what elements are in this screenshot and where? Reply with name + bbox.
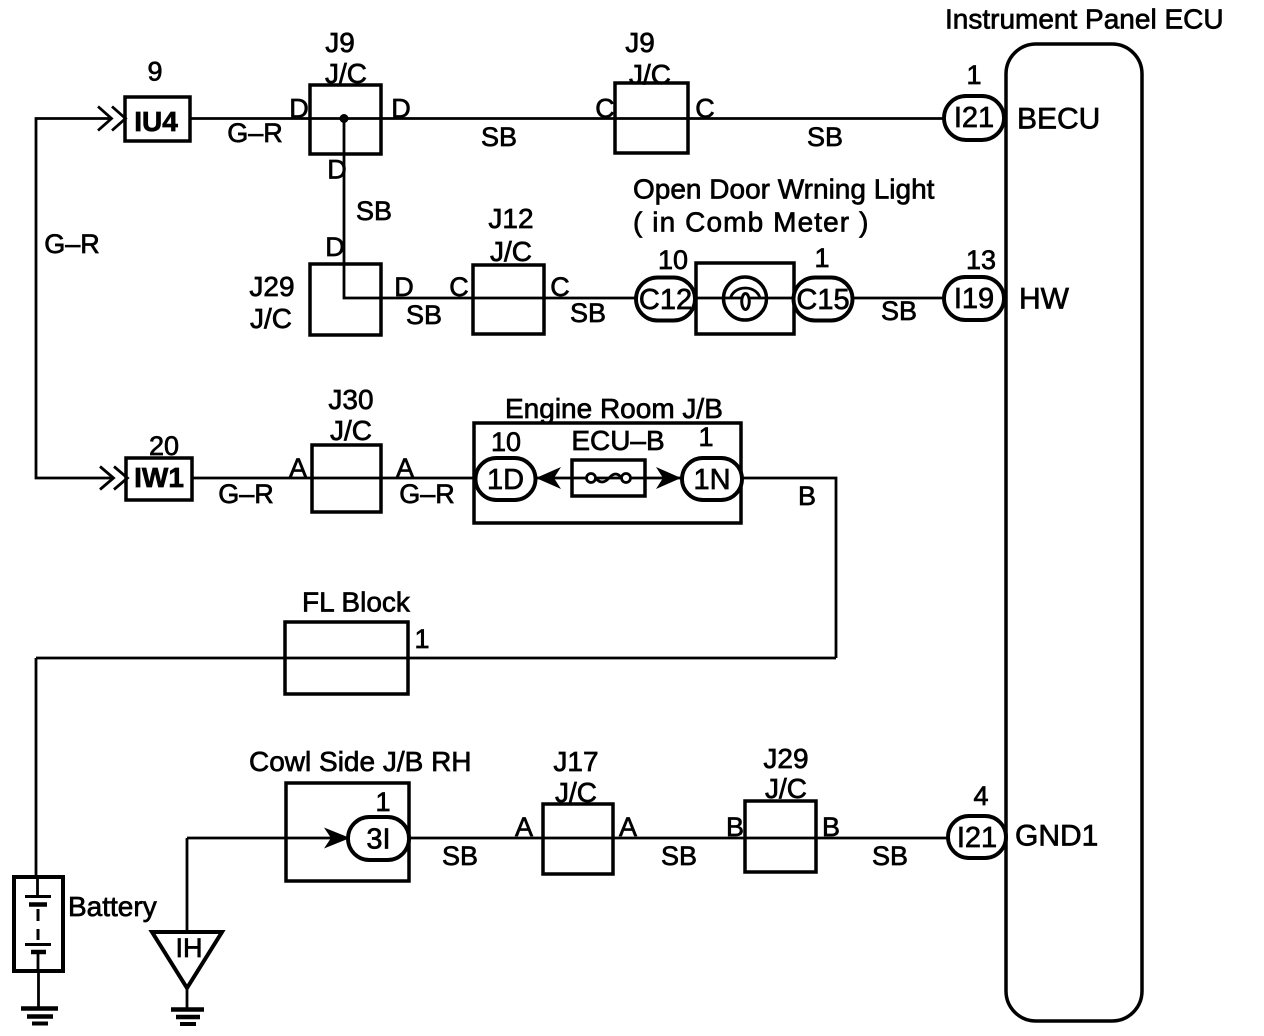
svg-text:A: A: [619, 812, 637, 842]
arrow right into 3I: [324, 828, 350, 849]
connector oval 1N: [682, 458, 742, 500]
svg-text:J30: J30: [328, 384, 373, 415]
svg-text:C: C: [550, 272, 570, 302]
svg-text:B: B: [798, 481, 816, 511]
FL Block box: [285, 622, 408, 694]
connector IU4: [125, 97, 190, 141]
svg-text:3I: 3I: [366, 824, 390, 856]
connector oval 3I: [348, 817, 409, 860]
battery box: [14, 877, 63, 971]
svg-text:J/C: J/C: [490, 236, 532, 267]
junction J17 box: [543, 804, 613, 874]
junction J9 box 1: [310, 85, 381, 154]
battery bottom lead: [37, 952, 40, 971]
battery cell2 short plate: [31, 950, 46, 955]
wire: SB vertical from J9 junction down into J29 then right: [344, 119, 382, 299]
svg-text:J/C: J/C: [325, 58, 367, 89]
svg-text:Battery: Battery: [68, 891, 157, 922]
svg-text:13: 13: [966, 245, 996, 275]
svg-text:G–R: G–R: [218, 479, 274, 509]
svg-text:J/C: J/C: [555, 777, 597, 808]
fuse symbol wave: [596, 474, 622, 482]
wire: row2 from J29 to I19: [381, 297, 946, 300]
svg-text:1: 1: [375, 787, 390, 817]
arrow left: [536, 467, 561, 489]
wire: branch down to IH: [186, 838, 189, 932]
svg-text:SB: SB: [872, 841, 908, 871]
svg-text:BECU: BECU: [1017, 103, 1100, 136]
svg-text:J9: J9: [625, 27, 655, 58]
svg-text:G–R: G–R: [44, 229, 100, 259]
svg-text:9: 9: [147, 57, 162, 87]
battery cell2 long plate: [25, 943, 51, 946]
svg-text:Engine Room J/B: Engine Room J/B: [505, 393, 723, 424]
wire: row4 FL block line: [36, 657, 836, 660]
connector oval 1D: [476, 458, 536, 500]
svg-text:C: C: [595, 94, 615, 124]
svg-text:1: 1: [814, 243, 829, 273]
svg-text:J/C: J/C: [629, 59, 671, 90]
junction J29 box row5: [745, 801, 816, 872]
svg-text:4: 4: [973, 781, 988, 811]
svg-text:1: 1: [698, 422, 713, 452]
svg-text:SB: SB: [661, 841, 697, 871]
IH ground bars: [171, 1010, 204, 1025]
svg-text:SB: SB: [807, 122, 843, 152]
fuse ECU-B box: [572, 460, 645, 496]
svg-text:1: 1: [966, 60, 981, 90]
connector oval I21 GND1: [948, 816, 1006, 858]
battery ground stem: [37, 971, 40, 1008]
arrow right: [656, 467, 681, 489]
connector oval I19 HW: [944, 277, 1004, 320]
connector oval C15: [794, 278, 853, 321]
svg-text:D: D: [325, 232, 345, 262]
wire: left G-R vertical from row1 to row3: [36, 119, 114, 479]
svg-text:B: B: [822, 812, 840, 842]
svg-text:A: A: [515, 812, 533, 842]
junction J9 box 2: [615, 83, 688, 153]
battery top lead: [36, 877, 39, 896]
svg-text:D: D: [327, 155, 347, 185]
IH ground triangle: [152, 932, 222, 988]
battery cell1 long plate: [25, 895, 51, 898]
svg-text:G–R: G–R: [399, 479, 455, 509]
svg-text:A: A: [289, 453, 307, 483]
connector IW1: [126, 458, 192, 500]
svg-text:D: D: [391, 94, 411, 124]
chevron arrows into IW1: [100, 467, 128, 490]
svg-text:IH: IH: [176, 933, 203, 963]
svg-text:J12: J12: [488, 203, 533, 234]
junction J30 box: [312, 445, 381, 512]
svg-text:J29: J29: [249, 271, 294, 302]
svg-text:I21: I21: [954, 102, 994, 134]
svg-text:J17: J17: [553, 746, 598, 777]
Instrument Panel ECU block: [1006, 44, 1142, 1021]
IH ground stem: [186, 988, 189, 1009]
svg-text:1N: 1N: [693, 464, 730, 496]
fuse symbol right circle: [622, 474, 631, 483]
svg-text:I19: I19: [954, 283, 994, 315]
svg-text:SB: SB: [570, 298, 606, 328]
svg-text:SB: SB: [442, 841, 478, 871]
junction dot: [340, 114, 349, 123]
svg-text:I21: I21: [957, 822, 997, 854]
wire: row3 from IW1 to corner and down to FL row: [192, 478, 836, 658]
Engine Room J/B box: [474, 423, 741, 523]
junction J29 box row2: [310, 264, 381, 335]
svg-text:SB: SB: [406, 300, 442, 330]
lamp circle: [724, 277, 767, 320]
svg-text:FL Block: FL Block: [302, 587, 411, 618]
svg-text:10: 10: [658, 245, 688, 275]
svg-text:GND1: GND1: [1015, 820, 1098, 853]
svg-text:J/C: J/C: [250, 303, 292, 334]
chevron arrows into IU4: [98, 107, 126, 131]
svg-text:Instrument Panel ECU: Instrument Panel ECU: [945, 4, 1224, 35]
connector oval C12: [636, 278, 695, 321]
battery dashed center: [37, 909, 40, 921]
wire: row5 main from IH branch to I21: [187, 837, 948, 840]
lamp box Open Door Warning Light: [696, 263, 794, 334]
svg-text:J/C: J/C: [330, 415, 372, 446]
svg-text:Cowl Side J/B RH: Cowl Side J/B RH: [249, 746, 472, 777]
Cowl Side J/B box: [286, 783, 409, 881]
svg-text:ECU–B: ECU–B: [571, 425, 664, 456]
svg-text:( in Comb Meter ): ( in Comb Meter ): [633, 207, 870, 238]
svg-text:J29: J29: [763, 743, 808, 774]
junction J12 box: [473, 265, 544, 334]
connector oval I21 BECU: [944, 96, 1004, 140]
svg-text:Open Door Wrning Light: Open Door Wrning Light: [633, 174, 935, 205]
lamp filament loop: [742, 294, 750, 310]
svg-text:D: D: [394, 272, 414, 302]
svg-text:1: 1: [414, 624, 429, 654]
svg-text:SB: SB: [881, 296, 917, 326]
battery ground bars: [21, 1009, 58, 1024]
svg-text:10: 10: [491, 427, 521, 457]
svg-text:IW1: IW1: [134, 462, 184, 493]
wire: left drop to battery: [35, 658, 38, 877]
svg-text:SB: SB: [356, 196, 392, 226]
svg-text:C: C: [695, 94, 715, 124]
svg-text:C: C: [449, 272, 469, 302]
battery cell1 short plate: [29, 902, 47, 907]
wire: row1 from IU4 to I21: [190, 117, 946, 120]
svg-text:IU4: IU4: [134, 106, 178, 137]
svg-text:C15: C15: [796, 284, 849, 316]
fuse symbol left circle: [587, 474, 596, 483]
svg-text:C12: C12: [639, 284, 692, 316]
svg-text:J9: J9: [325, 27, 355, 58]
svg-text:1D: 1D: [487, 464, 524, 496]
lamp filament dome: [731, 288, 761, 299]
svg-text:HW: HW: [1019, 283, 1070, 316]
svg-text:J/C: J/C: [765, 773, 807, 804]
svg-text:B: B: [726, 812, 744, 842]
svg-text:SB: SB: [481, 122, 517, 152]
svg-text:D: D: [289, 94, 309, 124]
svg-text:G–R: G–R: [227, 118, 283, 148]
